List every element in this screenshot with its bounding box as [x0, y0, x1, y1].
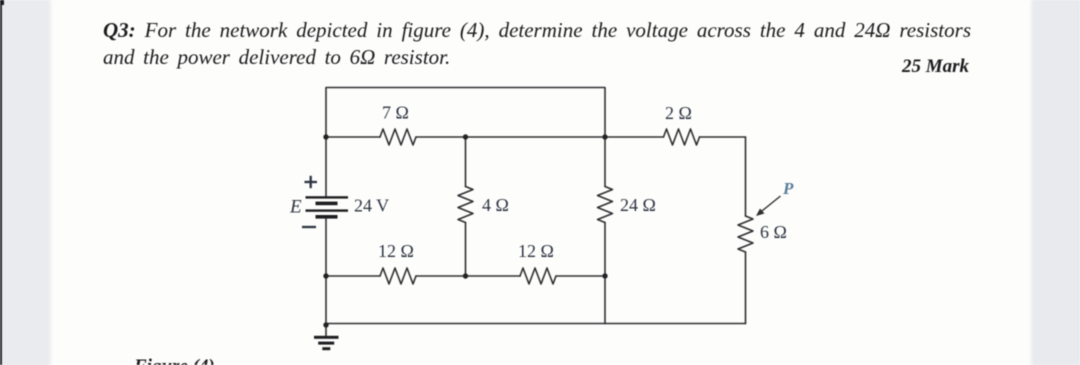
arrow to P [756, 196, 781, 216]
left gray margin band [2, 0, 49, 365]
svg-text:24 Ω: 24 Ω [620, 195, 656, 215]
label minus sign [302, 226, 316, 228]
question text line 2 [103, 45, 450, 70]
right gray margin band [1033, 0, 1080, 365]
node dot mid-middle [463, 273, 468, 278]
question text line 1 [103, 17, 971, 44]
node dot top-middle [463, 134, 468, 139]
ground symbol bars [314, 336, 339, 350]
wire top rail middle segment [416, 136, 664, 138]
svg-text:6 Ω: 6 Ω [760, 222, 787, 242]
svg-text:Figure (4): Figure (4) [133, 356, 215, 365]
svg-text:12 Ω: 12 Ω [518, 241, 554, 261]
node dot mid-left [323, 273, 328, 278]
resistor R_7ohm zigzag [380, 129, 416, 145]
node dot bottom-left [323, 322, 328, 327]
wire right rail lower [745, 252, 747, 324]
wire top rail left segment [326, 136, 380, 138]
svg-text:4 Ω: 4 Ω [482, 195, 509, 215]
dark top-left corner blob [0, 0, 4, 5]
wire middle rail left segment [326, 275, 380, 277]
resistor R_2ohm zigzag [664, 129, 700, 145]
wire right rail upper [745, 137, 747, 216]
wire middle rail right segment [556, 275, 605, 277]
svg-text:24 V: 24 V [354, 196, 389, 216]
wire 24ohm branch lower [604, 223, 606, 324]
label plus sign [305, 176, 318, 188]
wire top detour loop [326, 88, 605, 138]
resistor R_24ohm zigzag [598, 187, 613, 223]
wire middle rail center segment [416, 275, 520, 277]
resistor R_12ohm_A zigzag [380, 268, 416, 284]
resistor R_6ohm zigzag [738, 216, 753, 252]
marks label [902, 56, 969, 78]
battery E plates [306, 196, 349, 218]
wire 4ohm branch lower [465, 223, 467, 277]
svg-text:2 Ω: 2 Ω [665, 103, 692, 123]
resistor R_4ohm zigzag [458, 187, 473, 223]
svg-text:12 Ω: 12 Ω [378, 241, 414, 261]
wire 24ohm branch upper [604, 137, 606, 187]
wire ground stub [325, 325, 327, 337]
wire bottom rail [326, 323, 746, 325]
node dot mid-right [602, 273, 607, 278]
wire 4ohm branch upper [465, 137, 467, 187]
node dot top-left [323, 134, 328, 139]
dark left page edge [0, 0, 2, 365]
svg-text:E: E [289, 197, 302, 218]
node dot top-right [602, 134, 607, 139]
svg-text:P: P [782, 179, 794, 198]
wire left rail lower (battery to bottom) [325, 217, 327, 325]
wire top rail right segment [700, 136, 746, 138]
svg-text:7 Ω: 7 Ω [382, 103, 409, 123]
wire left rail upper (node to battery) [325, 137, 327, 197]
resistor R_12ohm_B zigzag [520, 268, 556, 284]
